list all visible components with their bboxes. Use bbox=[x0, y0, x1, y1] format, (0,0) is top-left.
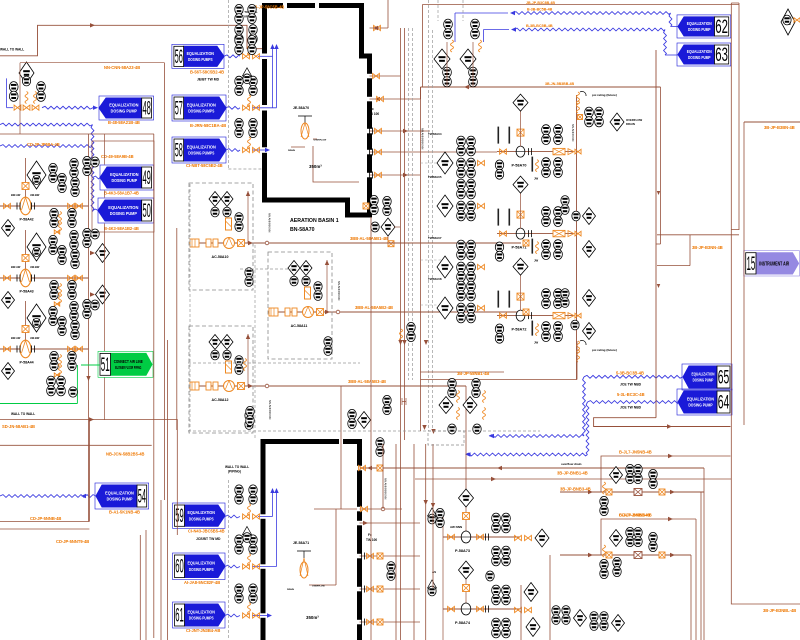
valve row TL 2 bbox=[23, 105, 30, 110]
valve pair P-58A42 bbox=[68, 203, 75, 208]
svg-text:EQUALIZATION: EQUALIZATION bbox=[687, 49, 712, 54]
bubbles P-58A71 se1 bbox=[542, 240, 551, 260]
bubbles P-58A72 se1 bbox=[542, 322, 551, 342]
diamond AC-58A12 a bbox=[209, 335, 221, 350]
bubble AC-58A11 motor bbox=[324, 337, 332, 356]
hose line y124 bbox=[0, 123, 93, 126]
bubbles header y205 bbox=[561, 196, 569, 215]
bubbles P-58A42 c bbox=[70, 158, 78, 177]
wire top y4.4 bbox=[423, 3, 739, 5]
bubbles above 56 b bbox=[248, 35, 256, 54]
interlock diamond top-right bbox=[781, 9, 795, 35]
node circle AC line3 bbox=[265, 384, 269, 388]
bubbles TW58A06 d bbox=[467, 262, 476, 282]
bubbles P-58A70 se1 bbox=[542, 158, 551, 178]
bubbles header y298 bbox=[561, 289, 569, 308]
wire riser P-58A73 bbox=[465, 489, 467, 537]
svg-text:CD-JP-BNB3-4B: CD-JP-BNB3-4B bbox=[619, 513, 650, 518]
wire blower line 1 y243 bbox=[190, 242, 521, 244]
wire basin1 tap y99 bbox=[370, 98, 421, 100]
flag 56 riser bbox=[272, 48, 274, 108]
bubbles 61 b bbox=[249, 584, 257, 603]
valve 61 2 bbox=[253, 613, 260, 618]
svg-text:SD-JN-58AB1-4B: SD-JN-58AB1-4B bbox=[2, 424, 35, 429]
flex boxedge a bbox=[577, 341, 580, 353]
wire col x371 bbox=[370, 217, 372, 640]
wire vertical x656 bbox=[655, 50, 657, 418]
svg-text:EQUALIZATION: EQUALIZATION bbox=[110, 172, 139, 177]
bubbles 59 a bbox=[235, 485, 243, 504]
wire basin2 y589 bbox=[360, 588, 421, 590]
valve basin1 y28 bbox=[374, 25, 381, 30]
svg-text:CI-JNT-JN3B4-AB: CI-JNT-JN3B4-AB bbox=[186, 628, 220, 633]
arrow down col x426 bbox=[424, 340, 428, 345]
diamond left P-58A43 bbox=[2, 292, 15, 309]
svg-text:DOSING PUMP: DOSING PUMP bbox=[107, 497, 133, 502]
signal dashed subc c bbox=[421, 304, 438, 306]
bubbles 61 a bbox=[235, 584, 243, 603]
future connection arc bbox=[580, 91, 586, 96]
valve sq AC line1 x391 bbox=[388, 241, 394, 247]
svg-text:CD-JP-5NNB-4B: CD-JP-5NNB-4B bbox=[30, 516, 61, 521]
bubbles x387 bbox=[383, 395, 391, 414]
bubbles P-58A44 d bbox=[71, 320, 79, 339]
bubbles BR2 extra bbox=[613, 557, 621, 576]
diamond cluster bottom b bbox=[463, 397, 477, 414]
svg-text:AC-58A10: AC-58A10 bbox=[212, 255, 229, 259]
svg-text:P-58A43: P-58A43 bbox=[20, 290, 34, 294]
valve TW58A06 bbox=[478, 264, 485, 269]
wire left vertical x153.8 bbox=[153, 134, 155, 638]
wire right thin box x731 bbox=[731, 3, 800, 604]
valve 57 2 bbox=[253, 105, 260, 110]
bubbles BR1 d bbox=[600, 496, 608, 515]
wire left cluster top y134 bbox=[0, 133, 154, 135]
check bars P-58A42 bbox=[17, 203, 20, 210]
bubble basin1 SE c bbox=[371, 222, 379, 232]
hose to flag 54 bbox=[0, 495, 96, 498]
pump P-58A73 bbox=[461, 531, 471, 543]
valve row TL 3 bbox=[32, 105, 39, 110]
svg-text:BLOWER FLOOR PIPING: BLOWER FLOOR PIPING bbox=[115, 365, 141, 370]
valve top-right bbox=[794, 18, 800, 23]
svg-text:NN ANNNN NN: NN ANNNN NN bbox=[268, 400, 272, 419]
bubbles cluster bottom a bbox=[448, 378, 456, 397]
valve square y468 bbox=[377, 465, 383, 471]
diamond right col a bbox=[96, 244, 110, 263]
bubbles TW58A06 a bbox=[457, 240, 466, 260]
interlock diamond topfeed a bbox=[434, 49, 450, 69]
hose to flag 48 bbox=[42, 106, 93, 109]
wire x704 down bbox=[703, 468, 705, 640]
valve square P-58A74 bbox=[463, 585, 470, 592]
svg-text:P-58A44: P-58A44 bbox=[20, 361, 34, 365]
svg-text:EQUALIZATION: EQUALIZATION bbox=[188, 609, 216, 614]
valve basin2 y556 bbox=[362, 553, 365, 560]
bubbles P-58A74 d bbox=[502, 618, 511, 638]
signal dashed x438 bbox=[437, 0, 439, 21]
arrow to diamond b bbox=[90, 292, 95, 296]
valve basin2 y468 bbox=[359, 465, 366, 470]
bubbles row1 right b bbox=[595, 107, 604, 127]
arrow down x424 bbox=[422, 425, 426, 430]
bubble P-58A44 k bbox=[91, 300, 99, 310]
svg-text:3B-JP-58C5B-4B: 3B-JP-58C5B-4B bbox=[252, 5, 284, 10]
pump P-58A71 bbox=[516, 228, 525, 239]
wire riser P-58A42 bbox=[25, 158, 27, 206]
valve BR2 a bbox=[606, 552, 612, 558]
bubbles P-58A42 j bbox=[83, 156, 91, 175]
valve basin1 y175 bbox=[370, 172, 373, 179]
wire basin2 y468 bbox=[360, 467, 705, 469]
wire pump line P-58A72 bbox=[497, 315, 573, 317]
wire right x744 bbox=[743, 122, 745, 425]
bubble cluster bottom a2 bbox=[448, 424, 456, 434]
bubbles P-58A43 a bbox=[49, 235, 57, 254]
bubbles AC-58A10 a bbox=[211, 207, 219, 217]
valve left P-58A70 bbox=[500, 149, 507, 154]
interlock diamond above P-58A70 bbox=[513, 94, 528, 111]
bubbles 57 a bbox=[235, 76, 243, 95]
svg-text:64: 64 bbox=[718, 392, 730, 413]
wire riser to basin2 x341 bbox=[340, 386, 342, 420]
svg-text:psi rating (future): psi rating (future) bbox=[592, 93, 617, 97]
valve pair P-58A43 bbox=[68, 275, 75, 280]
blower AC-58A11 bbox=[303, 307, 314, 318]
valve 58 1 bbox=[243, 147, 250, 152]
bubbles P-58A72 se2 bbox=[554, 322, 563, 342]
valve 56 2 bbox=[253, 54, 260, 59]
wire x656 to x594 bbox=[594, 418, 731, 427]
svg-text:3BB-AL-58A5B1-4B: 3BB-AL-58A5B1-4B bbox=[350, 236, 388, 241]
bubbles P-58A70 ne1 bbox=[542, 125, 551, 145]
bubbles P-58A71 se2 bbox=[554, 240, 563, 260]
heater AC-58A10 bbox=[226, 218, 232, 230]
flex TL 2 bbox=[34, 92, 37, 104]
wall gaps basin1 left bbox=[262, 54, 268, 60]
off-page connector flag 64 bbox=[677, 389, 732, 415]
silencer AC-58A12 bbox=[206, 382, 211, 390]
bubble P-58A43 k bbox=[91, 229, 99, 239]
valve square AC line1 end bbox=[523, 240, 529, 246]
bubbles P-58A44 a bbox=[49, 306, 57, 325]
package box AC-58A11 bbox=[268, 252, 332, 359]
svg-text:56: 56 bbox=[175, 47, 183, 68]
interlock diamond row1 bbox=[610, 113, 624, 131]
wire suction line P-58A44 bbox=[0, 348, 89, 350]
svg-text:AI-JA8-5NC82F-4B: AI-JA8-5NC82F-4B bbox=[184, 580, 220, 585]
svg-text:DOSING PUMP: DOSING PUMP bbox=[688, 27, 711, 32]
bubble right row3 bbox=[571, 320, 579, 330]
svg-text:WALL TO WALL: WALL TO WALL bbox=[225, 465, 249, 469]
diamond BR1 bbox=[610, 467, 623, 484]
arrow to diamond a bbox=[90, 251, 95, 255]
node circle AC line1 bbox=[265, 241, 269, 245]
hose flag 59 discharge bbox=[225, 515, 240, 518]
svg-text:WALL TO WALL: WALL TO WALL bbox=[11, 412, 35, 416]
wire right y265 bbox=[657, 265, 690, 267]
wire left vertical x164 bbox=[164, 63, 166, 500]
check valve P-58A70 bbox=[529, 148, 532, 155]
svg-text:3BB-AL-58A5B2-4B: 3BB-AL-58A5B2-4B bbox=[355, 305, 393, 310]
signal dashed x255 bbox=[254, 245, 256, 440]
svg-text:AW·BW: AW·BW bbox=[30, 193, 40, 197]
wire left vertical x140 bbox=[139, 535, 141, 640]
valve X small P-58A43 bbox=[54, 302, 59, 306]
silencer AC-58A10 bbox=[206, 239, 211, 247]
hose flag 61 discharge bbox=[225, 614, 240, 617]
diamond x364 bbox=[358, 412, 371, 429]
svg-text:EQUALIZATION: EQUALIZATION bbox=[188, 561, 216, 566]
wire top BR2 bbox=[601, 519, 696, 555]
valve square above P-58A71 bbox=[517, 211, 524, 218]
diamond AC-58A11 b bbox=[300, 261, 312, 276]
pump P-58A74 bbox=[461, 603, 471, 615]
inline box BR1 bbox=[634, 489, 642, 496]
arrow out BR1 bbox=[670, 490, 675, 494]
flex boxedge b bbox=[577, 350, 580, 362]
pump P-58A70 bbox=[516, 146, 525, 157]
bubbles P-58A44 b bbox=[58, 316, 66, 335]
bubbles P-58A42 f bbox=[68, 208, 76, 227]
flex topfeed a bbox=[451, 40, 454, 52]
hose to flag 63 bbox=[514, 28, 665, 31]
diamond right row3 b bbox=[583, 323, 596, 340]
off-page connector flag 51 (green) bbox=[98, 351, 153, 377]
wire x550 down bbox=[549, 555, 551, 640]
wire col x414 bbox=[413, 444, 415, 640]
wire col x433 bbox=[432, 444, 434, 588]
wire riser P-58A71 bbox=[520, 192, 522, 229]
diamond AC-58A10 b bbox=[221, 192, 233, 207]
diamond left P-58A42 bbox=[2, 220, 15, 237]
flex tall P-58A42 bbox=[59, 212, 62, 224]
valve left P-58A74 bbox=[448, 606, 455, 611]
off-page connector flag 54 bbox=[95, 483, 149, 509]
bubbles TW58A06 b bbox=[467, 240, 476, 260]
off-page connector flag 63 bbox=[677, 43, 731, 66]
signal dashed subc b bbox=[421, 259, 444, 261]
aerator JE-58A70 bbox=[298, 116, 312, 139]
valve sq basin1 SE corner bbox=[363, 203, 369, 209]
svg-text:DOSING PUMP: DOSING PUMP bbox=[688, 403, 712, 408]
bubbles TW58A04 b bbox=[467, 136, 476, 156]
valve left P-58A44 bbox=[4, 346, 11, 351]
basin1 interior pipe bbox=[291, 139, 359, 182]
svg-text:DRAIN: DRAIN bbox=[626, 122, 635, 126]
arrow down x433 low bbox=[431, 503, 435, 508]
bubbles P-58A44 f bbox=[68, 351, 76, 370]
wire left vertical x88.5 bbox=[88, 134, 90, 522]
package box AC-58A12 bbox=[189, 326, 253, 433]
wire blower inlet AC-58A11 bbox=[270, 311, 330, 313]
bubble AC-58A10 motor bbox=[245, 268, 253, 287]
wire col x383 bbox=[382, 444, 384, 509]
signal dashed x228 bbox=[227, 0, 229, 170]
bubbles 56 a bbox=[235, 25, 243, 44]
pump P-58A72 bbox=[516, 310, 525, 321]
pump P-58A42 bbox=[20, 197, 31, 215]
wire riser P-58A70 bbox=[520, 110, 522, 147]
hose to flag 65 bbox=[584, 375, 683, 378]
hose line y146 bbox=[0, 145, 93, 148]
bubbles bottomedge d bbox=[600, 612, 608, 631]
svg-text:NN-CNN-58A23-4B: NN-CNN-58A23-4B bbox=[104, 65, 140, 70]
bubbles P-58A73 d bbox=[502, 546, 511, 566]
diamond right row2 a bbox=[583, 208, 596, 225]
wall gaps basin2 left bbox=[261, 514, 267, 519]
flex below P-58A72 bbox=[536, 324, 539, 336]
cluster box bottom y379 bbox=[421, 379, 578, 381]
hose flag 56 discharge bbox=[224, 55, 240, 58]
wire left vertical x146 bbox=[145, 530, 147, 640]
arrow in BR1 bbox=[588, 490, 593, 494]
wire top BR1 bbox=[601, 456, 731, 492]
arrow on AC line2 bbox=[325, 310, 330, 314]
off-page connector flag 61 bbox=[173, 602, 226, 628]
wire basin2 y523 bbox=[360, 522, 421, 524]
svg-text:57: 57 bbox=[175, 98, 183, 119]
interlock diamond mid3 bbox=[526, 618, 540, 637]
valve left P-58A71 bbox=[500, 231, 507, 236]
flex 57 bbox=[248, 95, 251, 107]
signal dashed y363 bbox=[188, 362, 360, 364]
svg-text:3B-JN-5B3BB-4B: 3B-JN-5B3BB-4B bbox=[545, 82, 575, 86]
svg-text:59: 59 bbox=[175, 506, 184, 527]
bubbles P-58A73 a bbox=[492, 513, 501, 533]
bubbles P-58A70 sw bbox=[495, 160, 503, 179]
valve TW58A07 bbox=[478, 305, 485, 310]
svg-text:psi rating (future): psi rating (future) bbox=[592, 348, 617, 352]
svg-text:JE/BT TW MD: JE/BT TW MD bbox=[197, 78, 220, 82]
wire col x425 bbox=[425, 444, 427, 640]
svg-text:3B-JP-BNB1-4B: 3B-JP-BNB1-4B bbox=[557, 471, 588, 476]
flex below P-58A70 bbox=[536, 160, 539, 172]
wire y445 bbox=[0, 444, 152, 446]
valve BR1 a bbox=[606, 489, 612, 495]
bubbles bottomedge c bbox=[590, 612, 598, 631]
valve right P-58A72 bbox=[568, 313, 574, 319]
svg-text:350m³: 350m³ bbox=[306, 615, 319, 620]
check bars P-58A44 bbox=[17, 346, 20, 353]
svg-text:61: 61 bbox=[175, 605, 184, 626]
svg-text:CONNECT AIR LINE: CONNECT AIR LINE bbox=[114, 359, 143, 364]
flex 58 bbox=[248, 137, 251, 149]
valve square P-58A73 bbox=[463, 513, 470, 520]
valve 59 1 bbox=[243, 514, 250, 519]
blower AC-58A12 bbox=[224, 381, 235, 392]
stem bars P-58A71 bbox=[498, 209, 500, 226]
signal dashed y169 bbox=[228, 168, 262, 170]
wire pump line P-58A71 bbox=[497, 233, 573, 235]
bubbles BR1 a bbox=[626, 464, 634, 483]
flag 59 riser bbox=[272, 492, 274, 517]
svg-text:JE-58A71: JE-58A71 bbox=[293, 541, 309, 545]
wire col x396 bbox=[395, 444, 397, 640]
svg-text:DOSING PUMP: DOSING PUMP bbox=[688, 55, 711, 60]
svg-text:JW: JW bbox=[534, 177, 539, 181]
bubbles P-58A43 f bbox=[68, 280, 76, 299]
bubble AC-58A12 motor bbox=[245, 411, 253, 430]
wire boxedge x577 bbox=[576, 341, 578, 380]
bubbles 59 b bbox=[249, 485, 257, 504]
bubbles above 56 a bbox=[235, 35, 243, 54]
wire x521 down bbox=[520, 585, 522, 640]
valve basin2 y589 bbox=[362, 586, 365, 593]
wire line BR1 bbox=[560, 491, 704, 493]
svg-text:NB-JCN-58B2B5-4B: NB-JCN-58B2B5-4B bbox=[106, 452, 144, 457]
svg-text:NN ANNNN NN: NN ANNNN NN bbox=[337, 281, 341, 300]
svg-text:P-58A42: P-58A42 bbox=[20, 218, 34, 222]
svg-text:P-58A70: P-58A70 bbox=[512, 164, 527, 168]
wire riser pump73 x466 bbox=[465, 386, 467, 492]
svg-text:DOSING PUMPS: DOSING PUMPS bbox=[188, 109, 214, 114]
signal dashed x463 bbox=[462, 0, 464, 21]
valve square AC line2 end bbox=[523, 309, 529, 315]
arrow in BR2 bbox=[588, 553, 593, 557]
valve cluster right P-58A74 2 bbox=[525, 607, 532, 612]
bubbles TW58A05 b bbox=[467, 179, 476, 199]
valve cluster right P-58A73 2 bbox=[525, 535, 532, 540]
wire basin2 y479 bbox=[415, 478, 731, 480]
flex future 2 bbox=[577, 101, 580, 113]
interlock diamond mid bbox=[535, 529, 549, 547]
wire basin1 tap y28 bbox=[370, 27, 389, 29]
wire basin1 tap y76 bbox=[370, 75, 401, 77]
svg-text:AERATION BASIN 1: AERATION BASIN 1 bbox=[290, 218, 339, 224]
valve 60 1 bbox=[243, 564, 250, 569]
svg-text:TW 100: TW 100 bbox=[366, 538, 377, 542]
valve basin1 y99 bbox=[377, 96, 384, 101]
valve 60 2 bbox=[253, 564, 260, 569]
interlock diamond TW58A05 bbox=[437, 195, 453, 217]
bubbles P-58A74 c bbox=[492, 618, 501, 638]
wire basin2 y622 bbox=[360, 621, 421, 623]
bubbles P-58A74 b bbox=[502, 585, 511, 605]
off-page connector flag 65 bbox=[682, 364, 732, 390]
interlock diamond P-58A73 bbox=[459, 489, 474, 507]
bubbles top wall a bbox=[235, 4, 243, 23]
wire line BR2 bbox=[560, 554, 691, 556]
valve 59 2 bbox=[253, 514, 260, 519]
svg-text:B-56T-58C5B2-4B: B-56T-58C5B2-4B bbox=[190, 70, 224, 75]
svg-text:51: 51 bbox=[101, 355, 110, 376]
bubbles P-58A43 b bbox=[58, 245, 66, 264]
off-page connector flag 49 bbox=[100, 165, 154, 190]
diamond basin1 SE bbox=[381, 218, 395, 236]
off-page connector flag 15 (purple) bbox=[744, 251, 800, 276]
bubbles between walls bbox=[387, 562, 395, 581]
off-page connector flag 62 bbox=[677, 15, 731, 38]
bubbles P-58A70 ne2 bbox=[554, 125, 563, 145]
svg-text:CI-NBT-58C5B2-4B: CI-NBT-58C5B2-4B bbox=[186, 163, 223, 168]
valve right P-58A74 bbox=[477, 606, 484, 611]
svg-text:NN ANNNNN NN: NN ANNNNN NN bbox=[384, 478, 388, 499]
bubbles P-58A72 ne1 bbox=[542, 289, 551, 309]
bubbles P-58A72 ne2 bbox=[554, 289, 563, 309]
valve X small P-58A42 bbox=[54, 230, 59, 234]
check P-58A74 bbox=[486, 606, 489, 613]
svg-text:49: 49 bbox=[142, 168, 150, 189]
flex 56 bbox=[248, 43, 251, 55]
bubbles x411 bbox=[407, 322, 415, 341]
diamond right row2 b bbox=[583, 241, 596, 258]
svg-text:DOSING PUMP: DOSING PUMP bbox=[112, 178, 138, 183]
off-page connector flag 57 bbox=[172, 95, 226, 121]
svg-text:INSTRUMENT AIR: INSTRUMENT AIR bbox=[759, 261, 789, 267]
svg-text:3BB-AL-58A5B3-4B: 3BB-AL-58A5B3-4B bbox=[348, 379, 386, 384]
svg-text:OVERFLOW: OVERFLOW bbox=[314, 140, 328, 142]
